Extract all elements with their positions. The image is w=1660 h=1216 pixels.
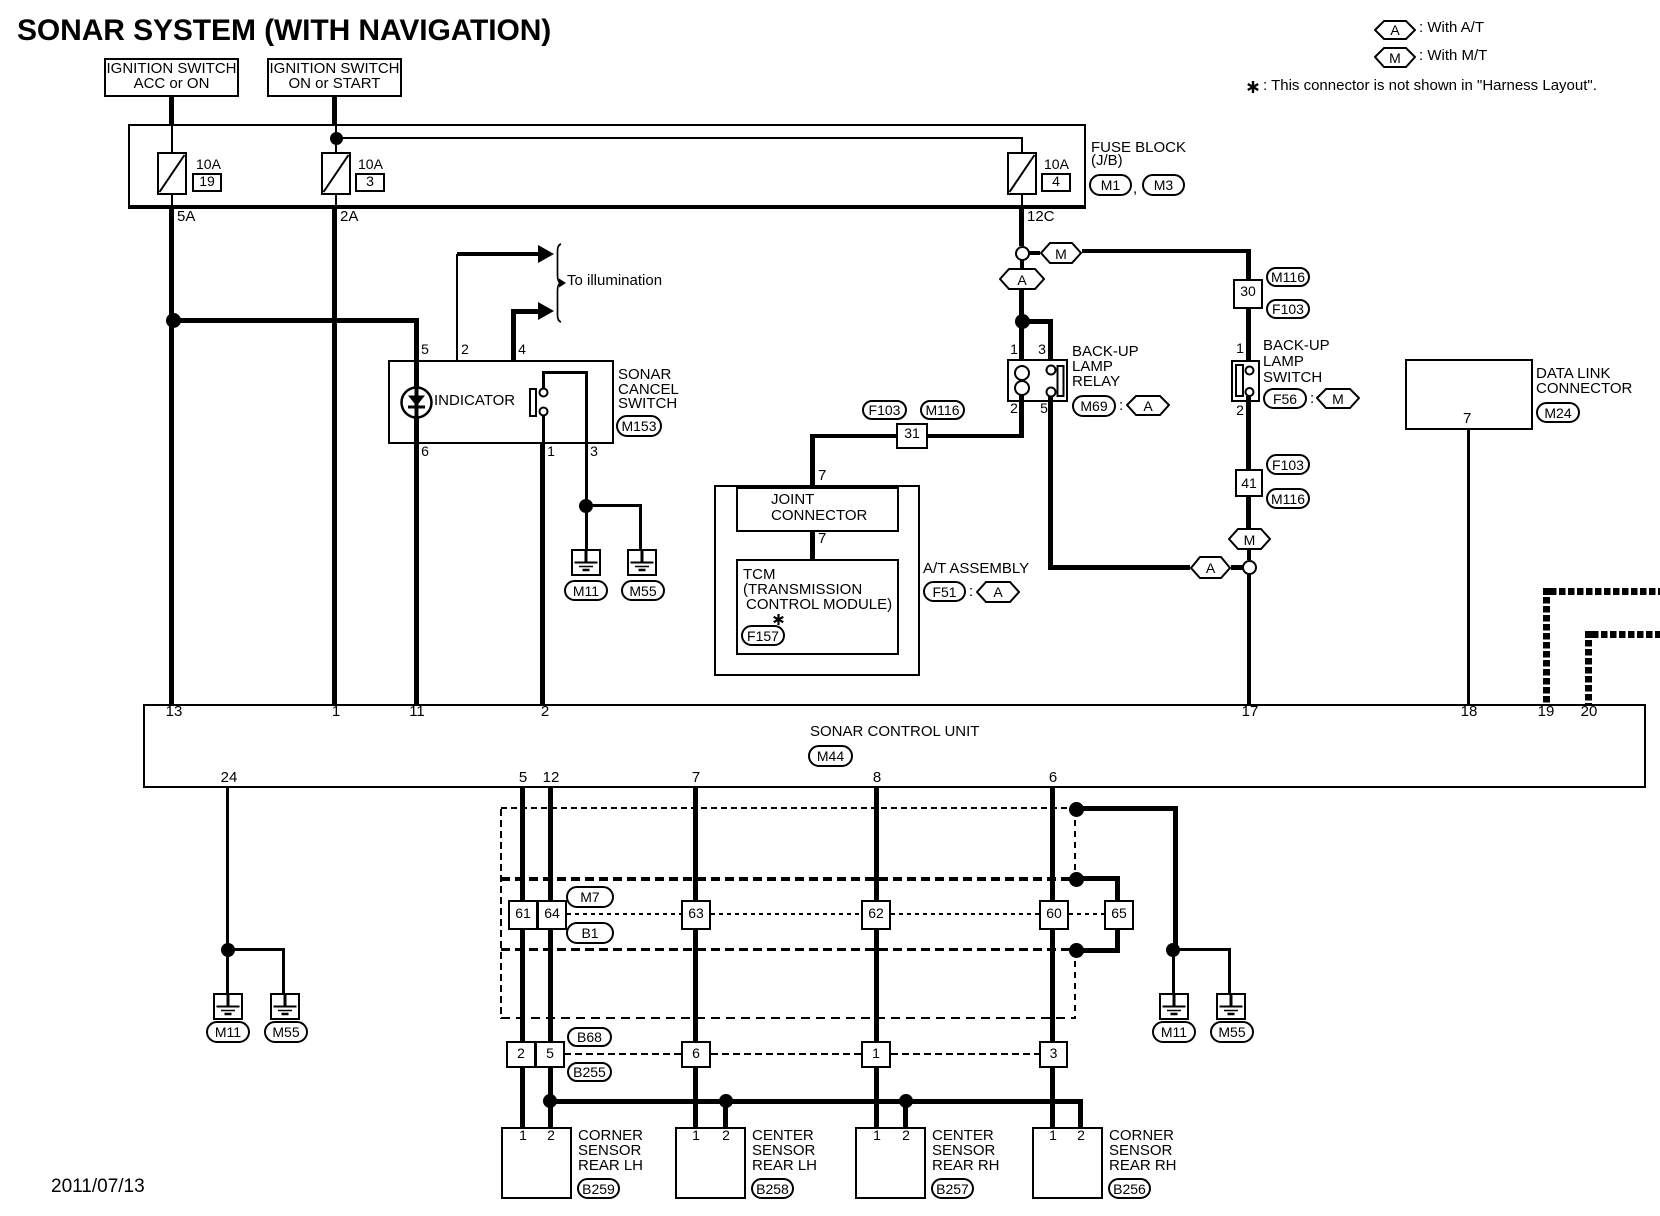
dashed box bottom edge <box>501 1017 1076 1019</box>
TCM label line1 <box>743 567 776 582</box>
connector box 65 <box>1104 900 1134 930</box>
hexagon A for relay <box>1126 395 1170 416</box>
fuse3 number box 4 <box>1041 173 1071 192</box>
wire cancel switch pin5 down <box>414 318 419 360</box>
ground symbol M55 mid <box>627 549 657 576</box>
wire cancel pin3 down <box>585 444 588 506</box>
connector M44 <box>808 745 853 767</box>
center sensor rear RH label line1 <box>932 1128 994 1143</box>
dashed link 5-6 <box>564 1053 681 1055</box>
cancel switch pin 6 label <box>405 444 445 459</box>
hexagon M above node <box>1228 528 1271 550</box>
connector M153 <box>616 415 662 437</box>
fuse block (J/B) box <box>128 124 1086 209</box>
back-up lamp switch pin 2 label <box>1220 403 1260 418</box>
A/T assembly outer box <box>714 485 920 676</box>
legend A/T text <box>1419 20 1484 35</box>
wire connector31 to joint connector corner <box>812 434 896 438</box>
ground symbol M11 right <box>1159 993 1189 1020</box>
wire fuse3 out <box>1021 195 1023 209</box>
wire M11 left drop <box>226 950 229 1008</box>
hexagon M for back-up lamp switch <box>1316 388 1360 409</box>
wire A hexagon to junction <box>1019 290 1024 321</box>
corner sensor rear RH box <box>1032 1127 1103 1199</box>
center sensor rear RH pin 1 label <box>857 1128 897 1143</box>
ground symbol M11 left <box>213 993 243 1020</box>
back-up lamp switch label line3 <box>1263 370 1322 385</box>
connector M11 left <box>206 1021 250 1043</box>
node circle pin17 <box>1242 560 1257 575</box>
corner sensor rear LH label line3 <box>578 1158 643 1173</box>
wire branch down to relay pin3 <box>1048 319 1053 366</box>
wire 65 bottom to junction <box>1076 948 1120 953</box>
indicator label <box>434 393 515 408</box>
wire junction to M55 ground <box>586 504 642 507</box>
joint connector box <box>736 487 899 532</box>
wire fuse2 out <box>335 195 337 209</box>
connector B255 <box>567 1062 612 1082</box>
sonar control unit label <box>810 724 979 739</box>
connector B1 <box>566 922 614 944</box>
connector B256 <box>1108 1178 1151 1199</box>
wire contact bottom to pin1 <box>542 416 545 444</box>
wire pin 6 segment a <box>1050 788 1055 900</box>
connector M116 lower <box>1266 488 1310 509</box>
wire M hexagon to circle node <box>1247 550 1251 560</box>
relay pin 2 label <box>994 401 1034 416</box>
wire jumper fuse2 to fuse3 <box>335 137 1023 139</box>
connector box 62 <box>861 900 891 930</box>
junction bus B258 <box>719 1094 733 1108</box>
wire bus to B257 pin2 <box>903 1101 908 1127</box>
wire cancel pin1 to control unit pin 2 <box>540 444 545 704</box>
dashed link 63-62 <box>711 913 861 915</box>
sonar cancel switch box <box>388 360 614 444</box>
connector box 31 <box>896 423 928 449</box>
dashed box left edge <box>500 809 502 1019</box>
corner sensor rear RH label line2 <box>1109 1143 1172 1158</box>
center sensor rear LH label line1 <box>752 1128 814 1143</box>
wire 2A to sonar control unit pin 1 <box>332 209 337 704</box>
control unit pin 5 <box>503 770 543 785</box>
connector box 60 <box>1039 900 1069 930</box>
corner sensor rear LH box <box>501 1127 572 1199</box>
arrowhead illumination 1 <box>538 245 554 263</box>
fuse2 number box 3 <box>355 173 385 192</box>
connector M11 right <box>1152 1021 1196 1043</box>
connector B258 <box>751 1178 794 1199</box>
legend M/T hexagon <box>1374 47 1416 68</box>
wire pin24 branch right <box>228 948 285 951</box>
tcm pin 7 label <box>818 531 826 546</box>
data link connector label line2 <box>1536 381 1632 396</box>
connector box 6 <box>681 1041 711 1068</box>
data link connector label line1 <box>1536 366 1610 381</box>
wire trunk branch right <box>1173 948 1231 951</box>
connector M55 right <box>1210 1021 1254 1043</box>
wire relay pin5 branch to A hexagon <box>1051 565 1190 570</box>
center sensor rear LH pin 2 label <box>706 1128 746 1143</box>
junction lower dashed right <box>1069 943 1084 958</box>
ground symbol M55 left <box>270 993 300 1020</box>
wire illumination arrow1 <box>457 252 540 256</box>
striped wire to pin 19 <box>1550 588 1660 595</box>
TCM box <box>736 559 899 655</box>
A/T assembly label <box>923 561 1029 576</box>
center sensor rear LH box <box>675 1127 746 1199</box>
colon after M69 <box>1119 398 1123 413</box>
center sensor rear RH label line3 <box>932 1158 1000 1173</box>
corner sensor rear LH label line2 <box>578 1143 641 1158</box>
back-up lamp switch pin 1 label <box>1220 341 1260 356</box>
title <box>17 23 551 38</box>
connector B257 <box>931 1178 974 1199</box>
junction above back-up lamp relay <box>1015 314 1030 329</box>
TCM asterisk <box>772 613 785 626</box>
control unit pin 18 <box>1454 704 1484 719</box>
data link connector box <box>1405 359 1533 430</box>
dashed link 60-65 <box>1069 913 1104 915</box>
wire to connector 65 top <box>1076 876 1120 881</box>
wire fuse1 feed <box>171 126 173 152</box>
wire pin 6 to sensor <box>1050 1067 1055 1127</box>
node 12C branch circle <box>1015 246 1030 261</box>
fuse 10A #19 <box>157 152 187 195</box>
connector F51 <box>923 581 966 602</box>
wire pin 12 to bus <box>548 1067 553 1101</box>
wire M11 ground drop <box>585 506 588 551</box>
wire circle to A hexagon <box>1020 260 1024 268</box>
wire corner down to connector 30 <box>1246 249 1251 280</box>
wire ignition ACC to fuse block <box>169 95 174 125</box>
back-up lamp switch label line2 <box>1263 354 1304 369</box>
corner sensor rear LH pin 1 label <box>503 1128 543 1143</box>
junction on wire 13 <box>166 313 181 328</box>
wire pin 5 segment b <box>520 930 525 1041</box>
dashed right edge upper <box>1074 809 1076 879</box>
wire 65 top drop <box>1115 876 1120 900</box>
legend A/T hexagon <box>1374 20 1416 40</box>
junction fuse2/jumper <box>330 132 343 145</box>
relay pin 5 label <box>1024 401 1064 416</box>
center sensor rear LH label line3 <box>752 1158 817 1173</box>
sonar cancel switch label line1 <box>618 367 671 382</box>
back-up lamp relay label line3 <box>1072 374 1120 389</box>
connector M7 <box>566 886 614 908</box>
control unit pin 17 <box>1235 704 1265 719</box>
dashed middle line <box>501 948 1076 951</box>
wire back-up lamp switch pin2 down <box>1246 396 1251 469</box>
ground symbol M11 mid <box>571 549 601 576</box>
wire LED to pin6 inside <box>414 417 419 444</box>
cancel switch pin 5 label <box>405 342 445 357</box>
fuse 10A #4 <box>1007 152 1037 195</box>
control unit pin 2 <box>525 704 565 719</box>
control unit pin 13 <box>159 704 189 719</box>
connector M3 <box>1142 174 1185 196</box>
fuse1 rating 10A <box>196 157 221 172</box>
relay contact <box>1044 363 1066 399</box>
joint connector pin 7 label <box>818 468 826 483</box>
comma between M1 M3 <box>1133 181 1137 196</box>
center sensor rear LH pin 1 label <box>676 1128 716 1143</box>
junction ground trunk split <box>1166 943 1180 957</box>
corner sensor rear RH label line3 <box>1109 1158 1177 1173</box>
wire circle to M hexagon <box>1029 251 1040 255</box>
wire dashed top to ground trunk <box>1076 806 1178 811</box>
to illumination label <box>567 273 662 288</box>
wire M55 right drop <box>1228 948 1231 1008</box>
connector box 1 <box>861 1041 891 1068</box>
wire pin 12 segment b <box>548 930 553 1041</box>
striped wire to pin 20 <box>1592 631 1660 638</box>
back-up lamp relay label line2 <box>1072 359 1113 374</box>
wire cancel pin6 to control unit pin 11 <box>414 444 419 704</box>
control unit pin 1 <box>316 704 356 719</box>
center sensor rear RH pin 2 label <box>886 1128 926 1143</box>
wire relay pin5 down <box>1048 396 1053 570</box>
joint connector label line2 <box>771 508 867 523</box>
wire ground trunk down <box>1173 806 1178 952</box>
wire joint connector to TCM <box>810 532 815 559</box>
corner sensor rear RH label line1 <box>1109 1128 1174 1143</box>
control unit pin 12 <box>536 770 566 785</box>
fuse1 number box 19 <box>192 173 222 192</box>
connector box 41 <box>1235 469 1263 497</box>
wire bus to B258 pin2 <box>723 1101 728 1127</box>
cancel switch pin 1 label <box>531 444 571 459</box>
junction thick dash right <box>1069 872 1084 887</box>
control unit pin 8 <box>857 770 897 785</box>
wire M hexagon to back-up lamp switch <box>1082 249 1248 253</box>
dashed box top edge <box>501 807 1076 809</box>
connector box 5 <box>535 1041 565 1068</box>
ignition switch ACC box <box>104 58 239 97</box>
wire illumination arrow2 <box>511 309 540 314</box>
wire fuse2 feed <box>335 126 337 152</box>
fuse2 rating 10A <box>358 157 383 172</box>
wire M55 ground drop <box>639 504 642 551</box>
wire bus corner to B256 pin2 <box>1078 1099 1083 1127</box>
relay pin 3 label <box>1022 342 1062 357</box>
fuse3 rating 10A <box>1044 157 1069 172</box>
connector M1 <box>1089 174 1132 196</box>
wire A hexagon to node <box>1231 565 1243 570</box>
sonar control unit box <box>143 704 1646 788</box>
connector box 64 <box>537 900 567 930</box>
wire fuse3 feed <box>1021 139 1023 152</box>
wire pin 24 down <box>226 788 229 950</box>
control unit pin 19 <box>1531 704 1561 719</box>
wire pin 8 segment b <box>874 930 879 1041</box>
dashed thick line <box>501 877 1076 881</box>
indicator LED <box>400 386 433 419</box>
connector B68 <box>567 1027 612 1047</box>
junction ground split <box>579 499 593 513</box>
control unit pin 24 <box>214 770 244 785</box>
dashed link 6-1 <box>711 1053 861 1055</box>
arrowhead illumination 2 <box>538 302 554 320</box>
wire down to joint connector pin7 <box>810 434 815 485</box>
center sensor rear RH label line2 <box>932 1143 995 1158</box>
date label <box>51 1179 145 1194</box>
back-up lamp switch box <box>1231 360 1260 402</box>
back-up lamp relay label line1 <box>1072 344 1139 359</box>
connector B259 <box>577 1178 620 1199</box>
corner sensor rear LH label line1 <box>578 1128 643 1143</box>
fuse block (J/B) label <box>1091 153 1123 168</box>
wire relay pin2 down <box>1019 395 1024 438</box>
connector F56 <box>1263 388 1307 409</box>
wire cancel switch pin4 up <box>511 309 516 360</box>
control unit pin 6 <box>1033 770 1073 785</box>
colon after F56 <box>1310 391 1314 406</box>
wire pin 5 to sensor <box>520 1067 525 1127</box>
wire 12C down <box>1019 209 1024 246</box>
dashed link 1-3 <box>891 1053 1039 1055</box>
TCM label line3 <box>746 597 892 612</box>
control unit pin 7 <box>676 770 716 785</box>
TCM label line2 <box>743 582 862 597</box>
wire connector41 to M hexagon <box>1246 497 1251 528</box>
terminal 5A <box>177 209 195 224</box>
connector F157 <box>741 625 785 646</box>
wire 5A to sonar control unit pin 13 <box>169 209 174 704</box>
junction pin24 grounds <box>221 943 235 957</box>
sonar cancel switch label line2 <box>618 382 679 397</box>
corner sensor rear RH pin 1 label <box>1033 1128 1073 1143</box>
brace to illumination <box>552 243 570 323</box>
sonar cancel switch label line3 <box>618 396 677 411</box>
sensor bus horizontal <box>548 1099 1083 1104</box>
fuse 10A #3 <box>321 152 351 195</box>
connector M11 mid <box>564 580 608 601</box>
wire pin 7 to sensor <box>693 1067 698 1127</box>
relay pin 1 label <box>994 342 1034 357</box>
DLC pin 7 label <box>1463 411 1471 426</box>
wire M55 left drop <box>282 948 285 1008</box>
connector M24 <box>1536 402 1580 423</box>
control unit pin 11 <box>402 704 432 719</box>
connector M116 upper <box>1266 267 1310 287</box>
hexagon A (with A/T) under node <box>999 268 1045 290</box>
wire pin 12 segment a <box>548 788 553 900</box>
dashed link 64-63 <box>567 913 681 915</box>
center sensor rear LH label line2 <box>752 1143 815 1158</box>
wire bus to B259 pin2 <box>548 1101 553 1127</box>
ground symbol M55 right <box>1216 993 1246 1020</box>
connector F103 at 31 <box>862 400 907 420</box>
connector box 3 <box>1039 1041 1068 1068</box>
wire connector30 to back-up lamp switch pin1 <box>1246 309 1251 367</box>
relay coil <box>1013 365 1031 396</box>
wire pin 5 segment a <box>520 788 525 900</box>
wire junction to relay pin1 <box>1019 321 1024 366</box>
fuse block label <box>1091 140 1186 155</box>
wire cancel switch pin2 up <box>456 254 458 360</box>
control unit pin 20 <box>1574 704 1604 719</box>
junction dashed top right <box>1069 802 1084 817</box>
junction bus pin12 <box>543 1094 557 1108</box>
legend asterisk note <box>1246 80 1260 94</box>
hexagon A for A/T assembly <box>976 581 1020 603</box>
wire contact top up <box>542 371 545 389</box>
ignition switch ON/START box <box>267 58 402 97</box>
junction bus B257 <box>899 1094 913 1108</box>
hexagon M (with M/T) branch <box>1040 242 1082 264</box>
connector M69 <box>1072 395 1116 417</box>
cancel switch pin 4 label <box>502 342 542 357</box>
colon after F51 <box>969 584 973 599</box>
wire DLC pin7 to sonar control unit pin 18 <box>1467 430 1470 704</box>
connector F103 upper <box>1266 299 1310 319</box>
connector M55 left <box>264 1021 308 1043</box>
corner sensor rear LH pin 2 label <box>531 1128 571 1143</box>
connector box 2 <box>506 1041 536 1068</box>
connector box 61 <box>508 900 538 930</box>
connector M55 mid <box>621 580 665 601</box>
terminal 2A <box>340 209 358 224</box>
wire contact top horizontal <box>542 371 588 374</box>
terminal 12C <box>1027 209 1055 224</box>
center sensor rear RH box <box>855 1127 926 1199</box>
back-up lamp switch contact <box>1235 364 1255 398</box>
connector M116 at 31 <box>920 400 965 420</box>
wire ignition ON to fuse block <box>332 95 337 125</box>
cancel switch pin 2 label <box>445 342 485 357</box>
hexagon A from relay branch <box>1190 556 1231 579</box>
wire fuse1 out <box>171 195 173 209</box>
back-up lamp switch label line1 <box>1263 338 1330 353</box>
wire pin 8 segment a <box>874 788 879 900</box>
dashed link 62-60 <box>891 913 1039 915</box>
cancel switch contact <box>528 386 550 419</box>
connector box 30 <box>1233 279 1263 309</box>
wire 65 bottom drop <box>1115 929 1120 953</box>
wire pin5 inside to LED <box>414 360 419 389</box>
connector F103 lower <box>1266 454 1310 475</box>
wire contact to pin3 <box>585 371 588 444</box>
wire pin 7 segment a <box>693 788 698 900</box>
wire relay pin2 to connector31 <box>928 434 1024 438</box>
wire junction to cancel switch pin5 horizontal <box>173 318 417 323</box>
joint connector label line1 <box>771 492 814 507</box>
wire junction branch right <box>1022 319 1053 324</box>
wire pin 6 segment b <box>1050 930 1055 1041</box>
dashed right edge lower <box>1074 950 1076 1019</box>
wire pin 8 to sensor <box>874 1067 879 1127</box>
legend M/T text <box>1419 48 1487 63</box>
cancel switch pin 3 label <box>574 444 614 459</box>
back-up lamp relay box <box>1007 359 1068 402</box>
wire pin 7 segment b <box>693 930 698 1041</box>
connector box 63 <box>681 900 711 930</box>
wire M11 right drop <box>1172 950 1175 1008</box>
corner sensor rear RH pin 2 label <box>1061 1128 1101 1143</box>
wire node to sonar control unit pin 17 <box>1247 574 1251 704</box>
